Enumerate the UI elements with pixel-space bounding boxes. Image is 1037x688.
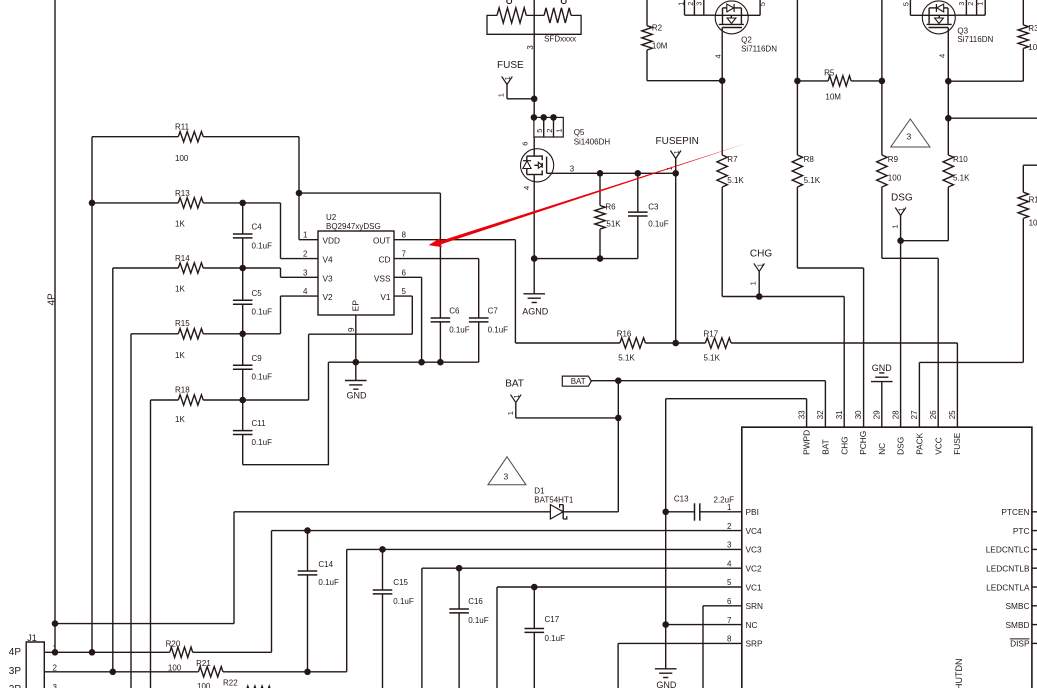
wire Q5 pin 4 stub — [533, 175, 535, 259]
svg-text:C4: C4 — [252, 223, 263, 232]
svg-text:PACK: PACK — [915, 432, 925, 454]
pin number 3 of Q3 rotated — [959, 2, 966, 6]
label R18 — [175, 385, 190, 394]
diode D1 — [550, 505, 566, 519]
svg-text:FUSE: FUSE — [497, 60, 524, 71]
svg-text:VCC: VCC — [933, 437, 943, 455]
value 0.1uF of C4 — [252, 241, 273, 250]
wire FUSEPIN column — [675, 173, 677, 343]
junction R14 / C4 / C5 — [239, 265, 246, 272]
svg-text:7: 7 — [402, 250, 407, 259]
pin name V2 — [323, 292, 334, 302]
junction 4P / D1 anode — [52, 620, 59, 627]
svg-text:10M: 10M — [1028, 43, 1037, 52]
svg-text:V2: V2 — [323, 292, 334, 302]
svg-text:1: 1 — [555, 129, 564, 133]
wire CHG row — [722, 297, 844, 428]
svg-text:51K: 51K — [606, 220, 621, 229]
svg-text:29: 29 — [873, 410, 882, 419]
junction R10 top — [945, 115, 952, 122]
pin number 28 of U1 rotated — [891, 410, 900, 419]
pin number 1 at DSG flag — [891, 225, 900, 229]
svg-text:BQ2947xyDSG: BQ2947xyDSG — [326, 222, 381, 231]
svg-text:33: 33 — [797, 410, 806, 419]
label C5 — [252, 289, 263, 298]
svg-text:Q2: Q2 — [741, 36, 752, 45]
svg-text:2P: 2P — [9, 684, 22, 688]
svg-text:R5: R5 — [824, 69, 835, 78]
pin number 1 at FUSE flag — [496, 93, 505, 97]
label R16 — [617, 330, 632, 339]
wire U2 pin 1 stub — [299, 239, 318, 241]
resistor R15 — [131, 329, 281, 339]
svg-text:3: 3 — [526, 45, 535, 50]
svg-text:DSG: DSG — [891, 192, 913, 203]
pin number 5 of Q2 rotated — [758, 2, 767, 6]
svg-text:5.1K: 5.1K — [953, 173, 970, 182]
resistor R17 — [676, 338, 958, 348]
pin number 8 of U2 — [402, 231, 407, 240]
wire C14 column — [307, 531, 309, 672]
label GND below U2 — [347, 391, 368, 401]
svg-text:SRP: SRP — [746, 639, 764, 649]
resistor R2 — [642, 0, 652, 81]
svg-text:8: 8 — [402, 231, 407, 240]
svg-text:GND: GND — [347, 391, 368, 401]
svg-text:0.1uF: 0.1uF — [449, 325, 470, 334]
svg-text:10M: 10M — [652, 42, 668, 51]
transistor Q2 symbol — [715, 1, 760, 34]
junction C17 top — [531, 584, 538, 591]
svg-text:4: 4 — [727, 559, 732, 568]
capacitor C6 — [431, 318, 451, 322]
annotation red arrow — [429, 143, 749, 248]
wire cap chain column — [242, 203, 244, 465]
label CHG — [750, 249, 772, 260]
pin number 9 of U2 rotated — [347, 327, 356, 332]
svg-text:R21: R21 — [196, 659, 211, 668]
resistor R14 — [113, 263, 281, 273]
svg-text:1K: 1K — [175, 284, 185, 293]
svg-text:FUSE: FUSE — [952, 432, 962, 455]
svg-text:3: 3 — [504, 471, 509, 481]
pin number 1 of U1 — [727, 503, 732, 512]
wire 1P riser — [496, 587, 498, 688]
junction comb pin 1 — [550, 114, 557, 121]
svg-text:0.1uF: 0.1uF — [468, 616, 489, 625]
label Si7116DN of Q2 — [741, 45, 777, 54]
label C16 — [468, 597, 483, 606]
junction C14 top — [304, 527, 311, 534]
label Q5 — [574, 128, 585, 137]
svg-text:DISP: DISP — [1010, 639, 1030, 649]
svg-text:26: 26 — [929, 410, 938, 419]
svg-text:2: 2 — [53, 664, 58, 673]
svg-text:C9: C9 — [252, 354, 263, 363]
value 0.1uF of C7 — [488, 325, 509, 334]
svg-text:10M: 10M — [825, 93, 841, 102]
junction NC on GND column — [662, 621, 669, 628]
svg-text:LEDCNTLA: LEDCNTLA — [986, 582, 1030, 592]
marker triangle 3 near DSG — [891, 119, 930, 147]
wire V3 jog — [281, 268, 319, 277]
svg-text:6: 6 — [520, 142, 529, 146]
wire R21 riser — [346, 549, 348, 671]
label R8 — [804, 155, 815, 164]
pin number 4 of Q2 rotated — [714, 54, 723, 58]
junction R5 right — [879, 78, 886, 85]
resistor R9 with VCC path — [877, 0, 939, 427]
value 0.1uF of C14 — [318, 578, 339, 587]
value 5.1K of R8 — [804, 176, 821, 185]
svg-text:1: 1 — [757, 263, 764, 267]
svg-text:BAT: BAT — [571, 377, 586, 386]
pin number 5 of U2 — [402, 287, 407, 296]
svg-text:SMBC: SMBC — [1006, 601, 1030, 611]
value 2.2uF of C13 — [714, 496, 735, 505]
wire Q2 pin 5 stub — [759, 0, 761, 15]
junction C15 top — [379, 546, 386, 553]
svg-text:PBI: PBI — [746, 507, 759, 517]
resistor R12 — [1018, 165, 1037, 362]
svg-text:3: 3 — [303, 268, 308, 277]
pin number 32 of U1 rotated — [816, 410, 825, 419]
svg-text:R13: R13 — [175, 189, 190, 198]
svg-text:31: 31 — [835, 410, 844, 419]
svg-text:J1: J1 — [27, 633, 37, 643]
label FUSEPIN — [656, 136, 699, 147]
junction BAT flag row — [615, 415, 622, 422]
pin number 25 of U1 rotated — [948, 410, 957, 419]
svg-text:1: 1 — [303, 231, 308, 240]
svg-text:C13: C13 — [674, 495, 689, 504]
svg-text:VC2: VC2 — [746, 564, 763, 574]
wire V4 jog — [281, 203, 319, 259]
label BAT54HT1 — [534, 496, 574, 505]
value 1K of R15 — [175, 351, 185, 360]
value 0.1uF of C5 — [252, 308, 273, 317]
svg-text:1: 1 — [899, 207, 906, 211]
svg-text:27: 27 — [910, 410, 919, 419]
value 100 of R11 — [175, 154, 189, 163]
pin number 4 of Q5 rotated — [522, 186, 531, 190]
label 3P — [9, 666, 22, 677]
wire 4P pack-positive bus (x=55) — [54, 0, 56, 652]
label U2 — [326, 213, 337, 222]
svg-text:C6: C6 — [449, 306, 460, 315]
transistor Q5 pin comb — [534, 117, 563, 137]
svg-text:R22: R22 — [223, 678, 238, 687]
tick 1 small at BAT flag — [514, 394, 521, 398]
pin number 31 of U1 rotated — [835, 410, 844, 419]
svg-text:PTC: PTC — [1013, 526, 1030, 536]
label 4P rotated on bus — [47, 293, 58, 306]
ground GND bottom — [655, 669, 677, 678]
wire ground bus below U2 — [328, 361, 478, 363]
value 5.1K of R7 — [727, 176, 744, 185]
junction R16 / R17 / FUSEPIN — [672, 340, 679, 347]
value 10M of R12 — [1029, 219, 1037, 228]
wire FUSE pin 25 column — [956, 343, 958, 427]
pin name PACK of U1 rotated — [915, 432, 925, 454]
svg-text:3: 3 — [570, 164, 575, 173]
svg-text:R16: R16 — [617, 330, 632, 339]
pin name NC of U1 rotated — [877, 443, 887, 455]
pin name VDD — [323, 236, 341, 246]
label 4P — [9, 647, 22, 658]
svg-text:R18: R18 — [175, 385, 190, 394]
pin number 1 of fuse cut — [507, 0, 512, 4]
svg-text:GND: GND — [656, 680, 677, 688]
svg-text:C16: C16 — [468, 597, 483, 606]
wire J1 pin 2 row with R21 — [44, 667, 346, 677]
svg-text:R12: R12 — [1029, 196, 1037, 205]
svg-text:0.1uF: 0.1uF — [318, 578, 339, 587]
label R14 — [175, 254, 190, 263]
junction R6 bottom — [597, 255, 604, 262]
tick 1 small at FUSE flag — [505, 76, 512, 80]
svg-text:V4: V4 — [323, 255, 334, 265]
label C7 — [488, 306, 499, 315]
connector J1 body — [26, 642, 44, 688]
svg-text:R15: R15 — [175, 319, 190, 328]
svg-text:R9: R9 — [888, 155, 899, 164]
junction DSG — [897, 237, 904, 244]
wire PACK pin row — [919, 362, 1023, 427]
junction CHG — [756, 293, 763, 300]
svg-text:3: 3 — [727, 541, 732, 550]
capacitor C17 — [525, 629, 545, 633]
wire C16 column — [458, 568, 460, 688]
value 100 of R21 — [197, 682, 211, 688]
value 0.1uF of C16 — [468, 616, 489, 625]
pin number 5 of Q5 rotated — [535, 129, 544, 133]
transistor Q3 pin comb — [956, 0, 986, 15]
value 0.1uF of C11 — [252, 438, 273, 447]
wire VSS pin 6 — [394, 277, 422, 362]
wire BAT column — [617, 381, 619, 512]
pin name BAT of U1 rotated — [821, 439, 831, 455]
junction R15 / C5 / C9 — [239, 331, 246, 338]
resistor R3 — [1018, 0, 1028, 50]
junction EP on bus — [353, 359, 360, 366]
svg-text:1K: 1K — [175, 219, 185, 228]
label R21 — [196, 659, 211, 668]
wire R2 to Q2 gate — [647, 80, 722, 82]
svg-text:VC4: VC4 — [746, 526, 763, 536]
wire C7 column — [478, 259, 480, 363]
svg-text:100: 100 — [197, 682, 211, 688]
value 0.1uF of C3 — [648, 220, 669, 229]
resistor R6 — [595, 173, 605, 258]
pin number 30 of U1 rotated — [854, 410, 863, 419]
pin number 1 at BAT flag — [506, 411, 515, 415]
junction Q5 source / AGND — [531, 255, 538, 262]
value 5.1K of R10 — [953, 173, 970, 182]
pin name VC2 of U1 — [746, 564, 763, 574]
pin number 3 of U2 — [303, 268, 308, 277]
wire D1 cathode — [563, 511, 618, 513]
wire NC row — [666, 624, 742, 626]
svg-text:2: 2 — [303, 250, 308, 259]
pin name VSS — [374, 273, 391, 283]
resistor R7 — [717, 81, 727, 297]
node BAT label — [562, 376, 591, 386]
svg-text:D1: D1 — [534, 487, 545, 496]
svg-text:BAT: BAT — [505, 379, 524, 390]
capacitor C9 — [233, 365, 253, 369]
junction BAT column top — [615, 377, 622, 384]
capacitor C15 — [373, 590, 393, 594]
label R9 — [888, 155, 899, 164]
pin number 33 of U1 rotated — [797, 410, 806, 419]
pin name V4 — [323, 255, 334, 265]
svg-text:2: 2 — [727, 522, 732, 531]
svg-text:100: 100 — [175, 154, 189, 163]
value 1K of R18 — [175, 415, 185, 424]
svg-text:0.1uF: 0.1uF — [252, 308, 273, 317]
svg-text:U2: U2 — [326, 213, 337, 222]
svg-text:AGND: AGND — [522, 307, 549, 317]
svg-text:PCHG: PCHG — [858, 431, 868, 455]
svg-text:CHG: CHG — [839, 436, 849, 454]
tick 1 small at FUSEPIN flag — [674, 150, 681, 154]
pin name SRP of U1 — [746, 639, 764, 649]
svg-text:Q5: Q5 — [574, 128, 585, 137]
wire SRN row — [703, 606, 742, 688]
svg-text:PWPD: PWPD — [802, 430, 812, 455]
label R6 — [605, 202, 616, 211]
wire cell-4 column (x=92) — [91, 137, 93, 653]
wire R20 riser — [271, 531, 273, 653]
svg-text:PTCEN: PTCEN — [1001, 507, 1029, 517]
label BAT at flag — [505, 379, 524, 390]
pin number 2 of U1 — [727, 522, 732, 531]
wire cell-3 column (x=112.8) — [112, 268, 114, 672]
pin number 7 of U1 — [727, 616, 732, 625]
wire C17 column — [533, 587, 535, 688]
pin stub DISP of U1 — [1032, 642, 1037, 644]
svg-text:3P: 3P — [9, 666, 22, 677]
pin number 6 of U2 — [402, 268, 407, 277]
value 10M of R3 — [1028, 43, 1037, 52]
junction J1 pin2 / cell3 — [110, 669, 117, 676]
wire R10 node row to edge — [948, 81, 1037, 118]
svg-text:R17: R17 — [704, 330, 719, 339]
value 10M of R5 — [825, 93, 841, 102]
value 0.1uF of C6 — [449, 325, 470, 334]
label J1 — [27, 633, 37, 643]
svg-text:5: 5 — [901, 2, 910, 6]
svg-text:1: 1 — [514, 394, 521, 398]
junction Q2 gate node — [719, 77, 726, 84]
pin number 5 of Q3 rotated — [901, 2, 910, 6]
junction J1 pin1 / cell4 — [89, 649, 96, 656]
label R2 — [652, 23, 663, 32]
svg-text:100: 100 — [888, 173, 902, 182]
svg-text:VC1: VC1 — [746, 582, 763, 592]
wire fuse pin 3 stub — [533, 0, 535, 99]
label R13 — [175, 189, 190, 198]
label 3 in triangle near DSG — [907, 132, 912, 142]
op-amp U1 body — [742, 427, 1032, 688]
label R22 — [223, 678, 238, 687]
junction Q3 gate node — [945, 78, 952, 85]
svg-text:1: 1 — [505, 76, 512, 80]
junction R6 top — [597, 170, 604, 177]
wire C11 bottom loop — [243, 362, 329, 465]
net flag BAT — [511, 395, 619, 418]
pin number 3 of Q5 — [570, 164, 575, 173]
svg-text:C15: C15 — [393, 578, 408, 587]
pin number 1 of Q2 rotated — [678, 2, 685, 6]
label R3 — [1028, 24, 1037, 33]
pin name LEDCNTLB of U1 — [986, 564, 1030, 574]
pin number 2 of Q3 rotated — [968, 2, 975, 6]
label C4 — [252, 223, 263, 232]
svg-text:2.2uF: 2.2uF — [714, 496, 735, 505]
pin number 3 of J1 — [53, 683, 58, 688]
label C6 — [449, 306, 460, 315]
resistor R11 — [92, 132, 299, 142]
svg-text:R8: R8 — [804, 155, 815, 164]
svg-text:DSG: DSG — [896, 437, 906, 455]
ground GND at pin 29 — [871, 373, 893, 427]
pin name DISP of U1 — [1010, 639, 1030, 649]
pin number 2 of Q5 rotated — [545, 129, 554, 133]
net flag DSG — [895, 208, 906, 241]
svg-text:1: 1 — [506, 411, 515, 415]
svg-text:1K: 1K — [175, 351, 185, 360]
svg-text:9: 9 — [347, 327, 356, 332]
svg-text:GND: GND — [872, 363, 893, 373]
svg-text:SHUTDN: SHUTDN — [954, 659, 964, 688]
pin number 8 of U1 — [727, 635, 732, 644]
pin name VCC of U1 rotated — [933, 437, 943, 455]
pin name V3 — [323, 273, 334, 283]
pin stub SMBC of U1 — [1032, 605, 1037, 607]
svg-text:3: 3 — [959, 2, 966, 6]
label C9 — [252, 354, 263, 363]
wire VC1 row — [497, 586, 742, 588]
wire D1 anode row — [234, 511, 550, 513]
svg-text:10M: 10M — [1029, 219, 1037, 228]
label C17 — [545, 615, 560, 624]
wire AGND row — [534, 258, 638, 260]
junction C3 top — [635, 170, 642, 177]
svg-text:4: 4 — [303, 287, 308, 296]
svg-text:0.1uF: 0.1uF — [252, 241, 273, 250]
label R20 — [166, 640, 181, 649]
ground GND below U2 — [345, 362, 367, 389]
svg-text:28: 28 — [891, 410, 900, 419]
pin name CHG of U1 rotated — [839, 436, 849, 454]
svg-text:8: 8 — [727, 635, 732, 644]
pin number 2 of fuse cut — [561, 0, 566, 4]
value 0.1uF of C17 — [545, 634, 566, 643]
svg-text:C5: C5 — [252, 289, 263, 298]
wire BAT row to pin 32 — [591, 381, 825, 428]
pin number 1 of J1 — [53, 644, 58, 653]
svg-text:2: 2 — [688, 2, 695, 6]
pin name EP rotated — [351, 300, 361, 312]
svg-text:SRN: SRN — [746, 601, 764, 611]
svg-text:0.1uF: 0.1uF — [393, 597, 414, 606]
pin name VC3 of U1 — [746, 545, 763, 555]
pin number 1 of U2 — [303, 231, 308, 240]
svg-text:R10: R10 — [953, 155, 968, 164]
capacitor C14 — [298, 571, 318, 575]
